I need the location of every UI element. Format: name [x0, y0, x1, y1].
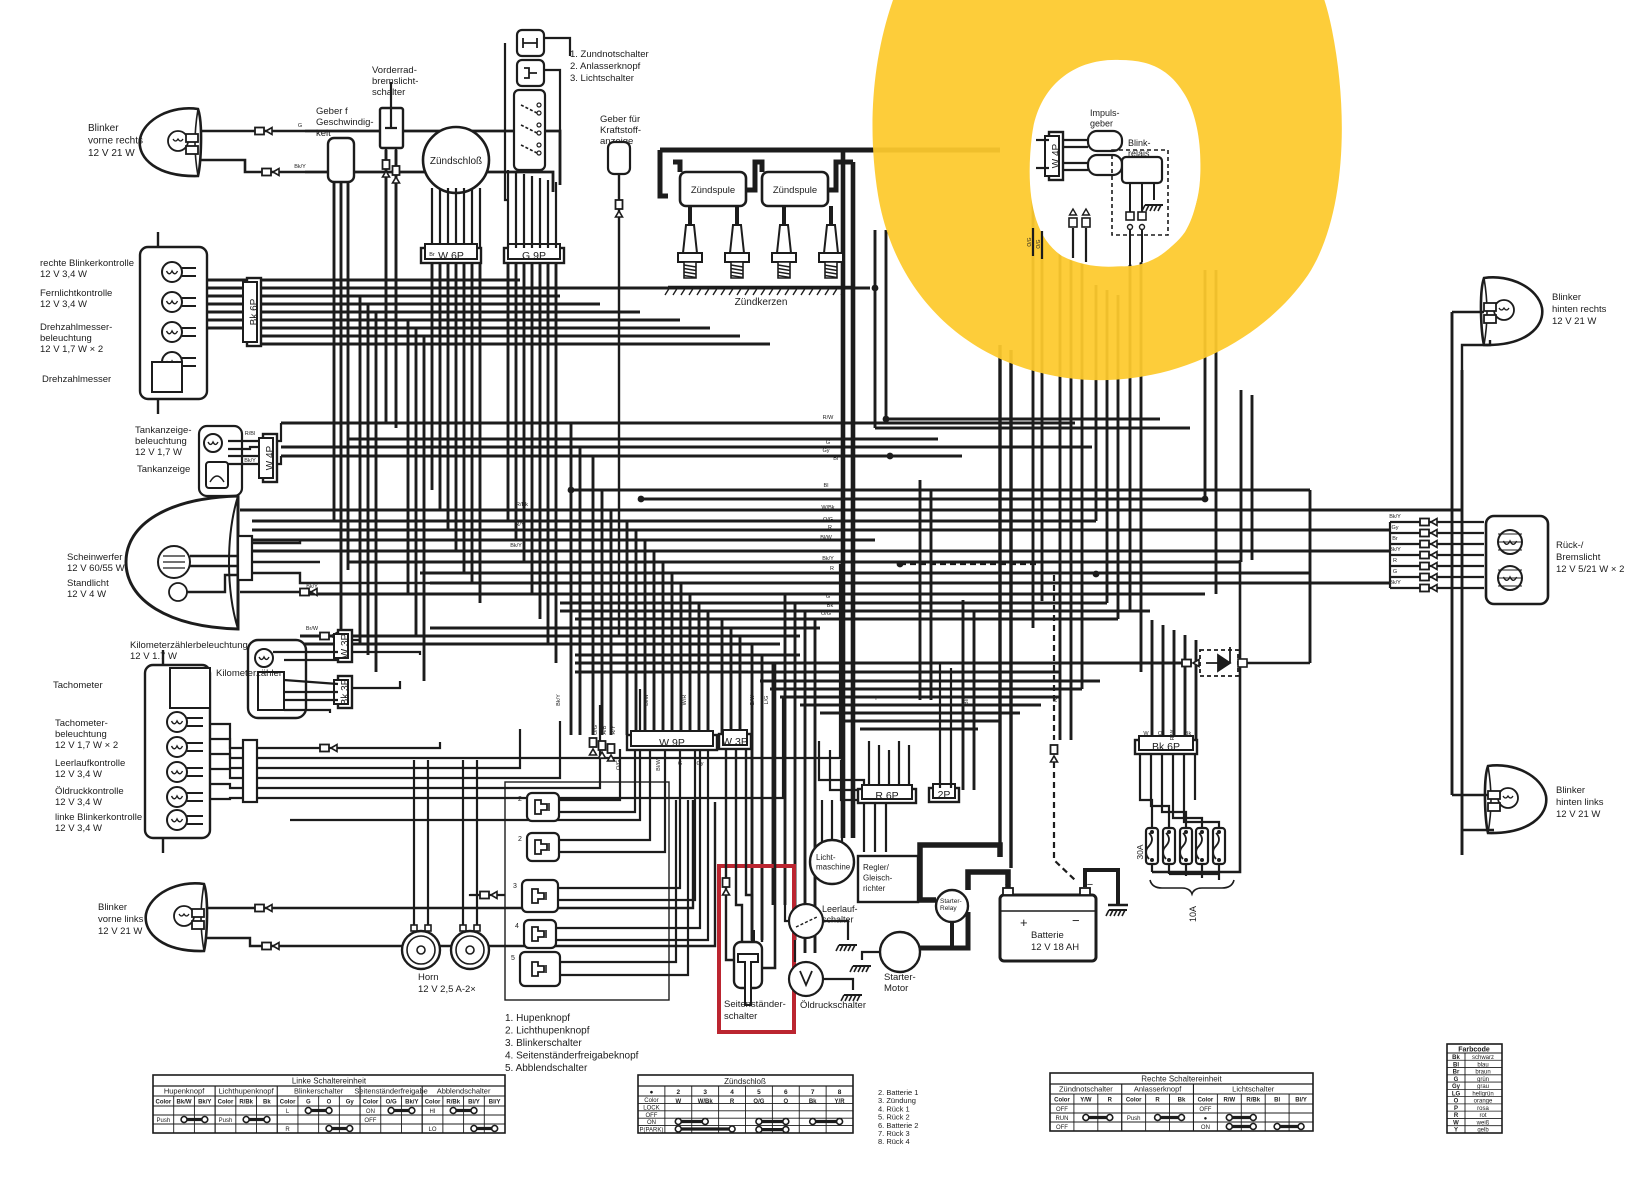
- svg-text:Starter-: Starter-: [940, 898, 962, 905]
- svg-text:Bk/Y: Bk/Y: [198, 1100, 211, 1106]
- svg-text:Y/R: Y/R: [835, 1099, 846, 1105]
- svg-text:Lichthupenknopf: Lichthupenknopf: [219, 1087, 275, 1096]
- connector W 6P: [421, 248, 481, 263]
- fuse 2: [1163, 828, 1175, 864]
- svg-text:Motor: Motor: [884, 983, 908, 994]
- spark plug 4: [824, 225, 838, 253]
- svg-text:richter: richter: [863, 884, 886, 893]
- lamp Blinker hinten links: [1485, 765, 1546, 833]
- svg-text:Licht-: Licht-: [816, 853, 836, 862]
- wires tachometer rows: [210, 724, 243, 748]
- svg-text:3. Blinkerschalter: 3. Blinkerschalter: [505, 1038, 582, 1049]
- svg-text:Bl/Y: Bl/Y: [964, 695, 970, 705]
- svg-text:Bk/Y: Bk/Y: [822, 556, 834, 562]
- svg-text:5. Abblendschalter: 5. Abblendschalter: [505, 1063, 588, 1074]
- switch Öldruckschalter: [789, 962, 823, 996]
- svg-text:Geschwindig-: Geschwindig-: [316, 117, 374, 128]
- svg-text:●: ●: [1204, 1116, 1208, 1122]
- svg-text:OFF: OFF: [1056, 1107, 1068, 1113]
- svg-text:O/G: O/G: [386, 1100, 397, 1106]
- wire bundle: main horizontal harness rows: [281, 422, 1075, 425]
- svg-text:O/G: O/G: [1036, 239, 1042, 248]
- wire lamp front-right bottom: [200, 160, 305, 172]
- svg-text:RUN: RUN: [1055, 1116, 1068, 1122]
- switch Vorderrad-bremslicht-schalter: [380, 108, 403, 148]
- svg-text:O/G: O/G: [1027, 237, 1033, 246]
- svg-text:Fernlichtkontrolle: Fernlichtkontrolle: [40, 288, 112, 299]
- wire front-left Bk/Y: [206, 938, 310, 946]
- svg-text:Starter-: Starter-: [884, 972, 916, 983]
- svg-text:Bk/Y: Bk/Y: [294, 164, 306, 170]
- svg-text:Leerlaufkontrolle: Leerlaufkontrolle: [55, 758, 125, 769]
- thick battery cables: [920, 912, 968, 948]
- svg-text:2: 2: [677, 1089, 681, 1096]
- svg-text:W 4P: W 4P: [265, 445, 276, 470]
- svg-text:12 V 60/55 W: 12 V 60/55 W: [67, 563, 125, 574]
- svg-text:ON: ON: [1201, 1125, 1210, 1131]
- tachometer unit: [145, 665, 210, 838]
- wire rear-right Gy: [1452, 311, 1484, 313]
- svg-text:Gy: Gy: [822, 448, 829, 454]
- svg-text:12 V 21 W: 12 V 21 W: [1556, 809, 1600, 820]
- bulb Kontrollleuchte 2: [162, 292, 182, 312]
- bulb Tacho 2: [167, 737, 187, 757]
- svg-text:Bl/W: Bl/W: [820, 535, 832, 541]
- wires Bk6P to fuses: [1139, 754, 1141, 770]
- svg-text:Bk 6P: Bk 6P: [1152, 741, 1180, 753]
- wires left switches to harness: [559, 749, 620, 800]
- svg-text:Bk/Y: Bk/Y: [510, 543, 522, 549]
- wires alternator: [821, 800, 823, 843]
- svg-text:Linke Schaltereinheit: Linke Schaltereinheit: [292, 1077, 367, 1086]
- svg-text:Color: Color: [425, 1100, 441, 1106]
- svg-text:Gy: Gy: [346, 1100, 355, 1106]
- svg-text:Bl/Y: Bl/Y: [489, 1100, 501, 1106]
- svg-text:Tankanzeige: Tankanzeige: [137, 464, 190, 475]
- svg-text:Scheinwerfer: Scheinwerfer: [67, 552, 122, 563]
- svg-text:Horn: Horn: [418, 972, 439, 983]
- svg-text:hinten links: hinten links: [1556, 797, 1604, 808]
- yellow highlighter ring annotation: [872, 0, 1341, 380]
- svg-text:O/G: O/G: [821, 611, 831, 617]
- wires headlight to harness: [252, 540, 870, 543]
- side stand switch Seitenständerschalter: [734, 942, 762, 988]
- svg-text:R: R: [828, 525, 832, 531]
- svg-text:Bk/Y: Bk/Y: [556, 694, 562, 706]
- table left switch unit: [153, 1075, 505, 1133]
- bulb Kontrollleuchte 3: [162, 322, 182, 342]
- wire front-left G: [206, 907, 310, 909]
- svg-text:Blinker: Blinker: [1552, 292, 1581, 303]
- dashed battery positive lead: [900, 563, 1040, 565]
- tail light Rück-/Bremslicht: [1486, 516, 1548, 604]
- connector W 9P: [627, 735, 717, 750]
- svg-text:4. Seitenständerfreigabeknopf: 4. Seitenständerfreigabeknopf: [505, 1051, 639, 1062]
- svg-text:beleuchtung: beleuchtung: [55, 729, 107, 740]
- headlight connector bar: [238, 536, 252, 580]
- svg-text:maschine: maschine: [816, 863, 851, 872]
- lamp Blinker vorne links: [146, 883, 207, 951]
- connector G 9P: [504, 248, 564, 263]
- wire switch1 to bus: [544, 38, 570, 56]
- speedometer unit Kilometerzähler: [248, 640, 306, 718]
- wires entering ring hole from below: [1072, 228, 1074, 258]
- svg-text:HI: HI: [430, 1109, 436, 1115]
- svg-text:W 3P: W 3P: [722, 736, 748, 748]
- svg-text:schalter: schalter: [724, 1011, 757, 1022]
- svg-text:12 V 18 AH: 12 V 18 AH: [1031, 942, 1079, 953]
- diode assembly: [1141, 662, 1192, 664]
- fuse 1: [1146, 828, 1158, 864]
- svg-text:3: 3: [513, 883, 517, 890]
- spark plug 3: [777, 225, 791, 253]
- svg-text:ON: ON: [366, 1109, 375, 1115]
- svg-text:−: −: [1087, 879, 1093, 891]
- svg-text:Blinkerschalter: Blinkerschalter: [294, 1087, 344, 1096]
- spark plug 1: [683, 225, 697, 253]
- flasher relay Blink-relais: [1112, 150, 1168, 235]
- switch Linke Schaltereinheit 2: [527, 833, 559, 861]
- thick wires coils: [660, 148, 1000, 153]
- inline connectors left of W9P: [590, 738, 597, 747]
- thick alternator mains: [841, 152, 846, 838]
- bulb Kontrollleuchte 1: [162, 262, 182, 282]
- svg-text:R: R: [830, 566, 834, 572]
- svg-text:O: O: [327, 1100, 332, 1106]
- switch Leerlaufschalter: [789, 904, 823, 938]
- svg-text:Color: Color: [1126, 1098, 1142, 1104]
- horn terminals and wires: [411, 925, 417, 931]
- white backing of ring hole: [1030, 60, 1201, 267]
- svg-text:5: 5: [757, 1089, 761, 1096]
- svg-text:Bk 6P: Bk 6P: [249, 298, 260, 325]
- svg-text:2: 2: [518, 836, 522, 843]
- svg-text:R/Bk: R/Bk: [446, 1100, 460, 1106]
- svg-text:Anlasserknopf: Anlasserknopf: [1134, 1085, 1182, 1094]
- svg-text:Leerlauf-: Leerlauf-: [822, 904, 858, 914]
- inline connector rows right: [1390, 521, 1484, 523]
- connector W 3P harness: [719, 734, 751, 749]
- svg-text:W/Bk: W/Bk: [698, 1099, 714, 1105]
- svg-text:+: +: [1020, 915, 1028, 930]
- lamp/gauge Tankanzeige unit: [199, 426, 242, 496]
- svg-text:Bl/W: Bl/W: [644, 693, 650, 705]
- spark plug 2: [730, 225, 744, 253]
- svg-text:vorne rechts: vorne rechts: [88, 136, 143, 147]
- svg-text:Tachometer-: Tachometer-: [55, 718, 108, 729]
- wire Gy to harness: [305, 131, 560, 185]
- switch Linke Schaltereinheit 1: [527, 793, 559, 821]
- svg-text:1. Zundnotschalter: 1. Zundnotschalter: [570, 49, 649, 60]
- svg-text:Tachometer: Tachometer: [53, 680, 103, 691]
- svg-text:4: 4: [515, 923, 519, 930]
- svg-text:10A: 10A: [1188, 906, 1198, 922]
- svg-text:Bk/Y: Bk/Y: [306, 584, 318, 590]
- svg-text:3: 3: [703, 1089, 707, 1096]
- svg-text:O/G: O/G: [616, 760, 622, 770]
- svg-text:Kilometerzähler: Kilometerzähler: [216, 668, 282, 679]
- svg-text:+: +: [1005, 879, 1011, 891]
- svg-text:O: O: [783, 1099, 788, 1105]
- svg-text:Kraftstoff-: Kraftstoff-: [600, 125, 641, 136]
- svg-text:Bk/Y: Bk/Y: [244, 458, 256, 464]
- svg-text:7: 7: [811, 1089, 815, 1096]
- svg-text:Öldruckkontrolle: Öldruckkontrolle: [55, 786, 124, 797]
- svg-text:beleuchtung: beleuchtung: [40, 333, 92, 344]
- svg-text:Bl: Bl: [1274, 1098, 1280, 1104]
- svg-text:Zündschloß: Zündschloß: [430, 156, 482, 167]
- wire Bk/Y to harness: [305, 172, 553, 192]
- svg-text:Push: Push: [157, 1118, 171, 1124]
- table Farbcode: [1447, 1044, 1502, 1133]
- bulb Standlicht: [169, 583, 187, 601]
- svg-text:Seitenständer-: Seitenständer-: [724, 999, 786, 1010]
- svg-text:Geber f: Geber f: [316, 106, 348, 117]
- switch cluster Zündnotschalter/Anlasserknopf/Lichtschalter: [517, 30, 544, 56]
- svg-text:Bl/W: Bl/W: [656, 758, 662, 770]
- svg-text:Bk/W: Bk/W: [177, 1100, 192, 1106]
- svg-text:G: G: [826, 440, 830, 446]
- svg-text:12 V 3,4 W: 12 V 3,4 W: [40, 299, 87, 310]
- ground Blink-relais: [1145, 204, 1163, 206]
- svg-text:Drehzahlmesser-: Drehzahlmesser-: [40, 322, 112, 333]
- svg-text:12 V 21 W: 12 V 21 W: [88, 148, 135, 159]
- svg-text:12 V 3,4 W: 12 V 3,4 W: [40, 269, 87, 280]
- svg-text:OFF: OFF: [364, 1118, 376, 1124]
- svg-text:12 V 3,4 W: 12 V 3,4 W: [55, 797, 102, 808]
- svg-text:Bk 3P: Bk 3P: [340, 678, 351, 705]
- svg-text:Br/W: Br/W: [306, 626, 319, 632]
- fuse bottom bus and brace: [1151, 864, 1153, 872]
- svg-text:Color: Color: [1198, 1098, 1214, 1104]
- svg-text:Impuls-: Impuls-: [1090, 108, 1120, 118]
- svg-text:Kilometerzählerbeleuchtung: Kilometerzählerbeleuchtung: [130, 640, 248, 651]
- wire lamp front-right top: [200, 130, 305, 133]
- svg-text:G: G: [298, 123, 302, 129]
- svg-text:8. Rück 4: 8. Rück 4: [878, 1137, 910, 1146]
- svg-text:R/W: R/W: [823, 415, 835, 421]
- svg-text:12 V 1,7 W: 12 V 1,7 W: [135, 447, 182, 458]
- lamp Blinker vorne rechts: [140, 108, 201, 176]
- svg-text:2: 2: [518, 796, 522, 803]
- svg-text:W: W: [675, 1099, 681, 1105]
- svg-text:Öldruckschalter: Öldruckschalter: [800, 1000, 866, 1011]
- svg-text:Y/W: Y/W: [1080, 1098, 1092, 1104]
- switch Linke Schaltereinheit 5: [520, 952, 560, 986]
- svg-text:Bk: Bk: [1185, 731, 1192, 737]
- headlight Scheinwerfer: [126, 496, 238, 629]
- svg-text:Gy: Gy: [1391, 525, 1398, 531]
- svg-text:R: R: [1053, 698, 1059, 702]
- svg-text:G: G: [306, 1100, 311, 1106]
- svg-text:A/B: A/B: [602, 725, 608, 734]
- svg-text:3. Lichtschalter: 3. Lichtschalter: [570, 73, 634, 84]
- svg-text:2. Lichthupenknopf: 2. Lichthupenknopf: [505, 1026, 590, 1037]
- svg-text:12 V 3,4 W: 12 V 3,4 W: [55, 769, 102, 780]
- svg-text:Color: Color: [363, 1100, 379, 1106]
- thick feed pair to battery area: [998, 345, 1001, 857]
- bulb Kontrollleuchte 4: [162, 352, 182, 372]
- svg-text:W 3P: W 3P: [340, 633, 351, 658]
- bulb Tacho 1: [167, 712, 187, 732]
- fuse 3: [1180, 828, 1192, 864]
- battery Batterie 12V 18AH: [1000, 895, 1096, 961]
- svg-text:Zündspule: Zündspule: [691, 185, 735, 196]
- svg-text:Bl/Y: Bl/Y: [1295, 1098, 1307, 1104]
- fuse 5: [1213, 828, 1225, 864]
- svg-text:Br: Br: [429, 252, 435, 258]
- svg-text:5: 5: [511, 955, 515, 962]
- horn 2: [451, 931, 489, 969]
- svg-text:R: R: [730, 1099, 735, 1105]
- bulb Tacho 3: [167, 762, 187, 782]
- svg-text:R 6P: R 6P: [875, 790, 898, 802]
- svg-text:12 V 1.7 W: 12 V 1.7 W: [130, 651, 177, 662]
- connector Bk 3P speedo: [338, 676, 352, 708]
- svg-text:Push: Push: [219, 1118, 233, 1124]
- wire brake switch 1: [385, 148, 387, 423]
- svg-text:Rechte Schaltereinheit: Rechte Schaltereinheit: [1141, 1075, 1222, 1084]
- bulb Tacho 5: [167, 810, 187, 830]
- svg-text:Bk: Bk: [263, 1100, 271, 1106]
- wire switch bus left: [505, 43, 508, 200]
- bulb Tacho 4: [167, 787, 187, 807]
- svg-text:Blinker: Blinker: [98, 902, 127, 913]
- svg-text:W 9P: W 9P: [659, 737, 685, 749]
- svg-text:Bk/Y: Bk/Y: [1389, 514, 1401, 520]
- svg-text:Zündspule: Zündspule: [773, 185, 817, 196]
- ground line Zündkerzen: [668, 286, 855, 289]
- svg-text:Zündnotschalter: Zündnotschalter: [1059, 1085, 1113, 1094]
- table Zündschloß: [638, 1075, 853, 1133]
- svg-text:1. Hupenknopf: 1. Hupenknopf: [505, 1013, 570, 1024]
- svg-text:Bk: Bk: [809, 1099, 817, 1105]
- wire junction dots: [887, 453, 894, 460]
- svg-text:Batterie: Batterie: [1031, 930, 1064, 941]
- lamp Blinker hinten rechts: [1481, 277, 1542, 345]
- svg-text:Y: Y: [1454, 1128, 1458, 1134]
- svg-text:W/Bk: W/Bk: [821, 505, 834, 511]
- svg-text:Relay: Relay: [940, 905, 957, 912]
- starter relay: [936, 890, 968, 922]
- svg-text:Color: Color: [1054, 1098, 1070, 1104]
- svg-text:Vorderrad-: Vorderrad-: [372, 65, 417, 76]
- svg-text:−: −: [1072, 913, 1080, 928]
- svg-text:12 V 21 W: 12 V 21 W: [1552, 316, 1596, 327]
- svg-text:Br: Br: [1392, 536, 1398, 542]
- svg-text:R/Bk: R/Bk: [516, 502, 528, 508]
- svg-text:Color: Color: [156, 1100, 172, 1106]
- wires switch cluster to G 9P: [507, 170, 509, 248]
- red highlight rectangle Seitenständerschalter: [719, 866, 794, 1032]
- svg-text:Bk: Bk: [1178, 1098, 1186, 1104]
- switch Linke Schaltereinheit 4: [524, 920, 556, 948]
- svg-text:R/Bl: R/Bl: [245, 431, 255, 437]
- svg-text:O: O: [1158, 731, 1163, 737]
- svg-text:R/W: R/W: [1170, 729, 1176, 741]
- pickup coil Impulsgeber 2: [1088, 155, 1122, 175]
- svg-text:OFF: OFF: [1199, 1107, 1211, 1113]
- horn 1: [402, 931, 440, 969]
- svg-text:Color: Color: [218, 1100, 234, 1106]
- svg-text:Bremslicht: Bremslicht: [1556, 552, 1601, 563]
- svg-text:8: 8: [838, 1089, 842, 1096]
- wire rear-left G: [1452, 794, 1488, 796]
- ground Öldruckschalter: [844, 994, 862, 996]
- svg-text:beleuchtung: beleuchtung: [135, 436, 187, 447]
- svg-text:Y: Y: [928, 696, 932, 702]
- wire bundle: vertical harness runs: [333, 182, 336, 520]
- starter motor: [880, 932, 920, 972]
- svg-text:W: W: [1143, 731, 1149, 737]
- svg-text:30A: 30A: [1135, 844, 1145, 859]
- svg-text:Zündkerzen: Zündkerzen: [735, 297, 788, 308]
- svg-text:R/Bk: R/Bk: [1246, 1098, 1260, 1104]
- svg-text:Blinker: Blinker: [88, 123, 119, 134]
- connector W 3P speedo: [338, 630, 352, 662]
- svg-text:Drehzahlmesser: Drehzahlmesser: [42, 374, 111, 385]
- svg-text:G: G: [678, 761, 682, 767]
- svg-text:W 4P: W 4P: [1051, 143, 1062, 168]
- svg-text:Bk/Y: Bk/Y: [1389, 580, 1401, 586]
- coil secondary leads to spark plugs: [688, 206, 692, 225]
- svg-text:12 V 21 W: 12 V 21 W: [98, 926, 142, 937]
- svg-text:R: R: [285, 1127, 290, 1133]
- wires W4P to pickups: [1063, 139, 1088, 141]
- svg-text:R/W: R/W: [1223, 1098, 1235, 1104]
- svg-text:LO: LO: [429, 1127, 437, 1133]
- svg-text:W 6P: W 6P: [438, 250, 464, 262]
- wires tank unit to W4P: [228, 440, 263, 442]
- svg-text:Geber für: Geber für: [600, 114, 640, 125]
- wire brake switch 2: [395, 148, 397, 428]
- svg-text:Hupenknopf: Hupenknopf: [164, 1087, 205, 1096]
- svg-text:Abblendschalter: Abblendschalter: [437, 1087, 491, 1096]
- svg-text:vorne links: vorne links: [98, 914, 144, 925]
- regulator Regler/Gleischrichter: [858, 856, 918, 902]
- svg-text:P(PARK): P(PARK): [639, 1128, 663, 1134]
- svg-text:R: R: [1155, 1098, 1160, 1104]
- svg-text:Color: Color: [280, 1100, 296, 1106]
- wires regulator nested U to R6P: [819, 741, 864, 852]
- svg-text:G: G: [826, 594, 830, 600]
- wires in red box: [725, 748, 727, 905]
- svg-text:Seitenständerfreigabe: Seitenständerfreigabe: [354, 1087, 427, 1096]
- battery negative lead to ground: [1085, 870, 1118, 905]
- ignition coil Zündspule left: [680, 172, 746, 206]
- svg-text:G: G: [1393, 569, 1397, 575]
- svg-text:Y: Y: [874, 696, 878, 702]
- pickup coil Impulsgeber 1: [1088, 131, 1122, 151]
- connector W 4P impulse: [1049, 132, 1063, 180]
- ground battery: [1109, 909, 1127, 911]
- svg-text:Br: Br: [833, 456, 839, 462]
- connector R 6P: [858, 789, 916, 803]
- svg-text:bremslicht-: bremslicht-: [372, 76, 418, 87]
- svg-text:R/Y: R/Y: [515, 522, 525, 528]
- svg-text:Regler/: Regler/: [863, 863, 890, 872]
- svg-text:Blinker: Blinker: [1556, 785, 1585, 796]
- ground starter motor: [853, 965, 871, 967]
- tachometer connector bar: [243, 740, 257, 802]
- connector W 4P tank: [263, 434, 277, 482]
- alternator Lichtmaschine: [810, 840, 854, 884]
- svg-text:●: ●: [649, 1089, 653, 1096]
- svg-text:Bk/Y: Bk/Y: [405, 1100, 418, 1106]
- svg-text:L/G: L/G: [764, 696, 770, 705]
- svg-text:Bl: Bl: [824, 483, 829, 489]
- svg-text:gelb: gelb: [1477, 1128, 1489, 1134]
